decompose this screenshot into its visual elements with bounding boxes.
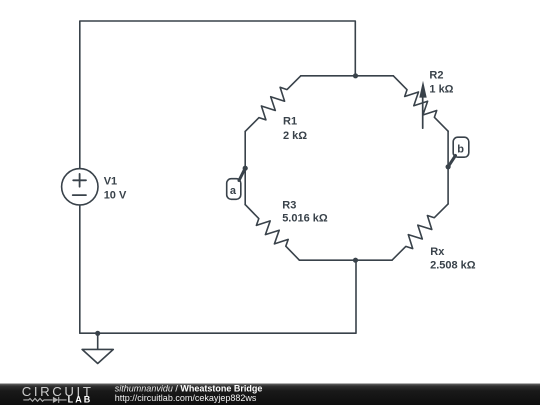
junction dot ground xyxy=(95,331,100,336)
wire: right vertical (node b) xyxy=(447,131,449,204)
svg-text:R1: R1 xyxy=(283,116,297,128)
svg-text:sithumnanvidu / Wheatstone Bri: sithumnanvidu / Wheatstone Bridge xyxy=(115,383,263,393)
voltage source V1 xyxy=(62,169,98,205)
R2 wiper arrow line xyxy=(422,96,424,128)
svg-text:10 V: 10 V xyxy=(104,190,127,202)
wire: bottom-right horizontal xyxy=(356,259,393,261)
resistor R2 (variable) xyxy=(393,76,448,131)
wire: bottom-left horizontal xyxy=(299,259,355,261)
junction dot node a xyxy=(243,166,248,171)
svg-text:2.508 kΩ: 2.508 kΩ xyxy=(430,259,476,271)
resistor R3 xyxy=(245,205,299,261)
svg-text:R2: R2 xyxy=(429,70,443,82)
svg-text:5.016 kΩ: 5.016 kΩ xyxy=(282,213,328,225)
svg-text:R3: R3 xyxy=(282,199,296,211)
svg-text:http://circuitlab.com/cekayjep: http://circuitlab.com/cekayjep882ws xyxy=(115,393,257,403)
svg-text:Rx: Rx xyxy=(430,246,445,258)
R2 arrowhead xyxy=(419,81,426,98)
svg-text:a: a xyxy=(230,185,237,197)
node b box xyxy=(453,137,469,157)
logo resistor symbol xyxy=(23,397,66,403)
svg-text:V1: V1 xyxy=(104,176,117,188)
junction dot bottom node xyxy=(353,258,358,263)
wire: top-right horizontal xyxy=(356,75,394,77)
svg-text:LAB: LAB xyxy=(68,395,93,405)
node a pointer xyxy=(239,168,245,180)
svg-text:b: b xyxy=(457,144,464,156)
svg-text:1 kΩ: 1 kΩ xyxy=(429,83,453,95)
wire: left vertical (node a) xyxy=(244,131,246,204)
resistor R1 xyxy=(245,76,301,132)
wire: V1 top to top node xyxy=(80,21,356,169)
node b pointer xyxy=(448,156,455,167)
junction dot node b xyxy=(446,164,451,169)
node a box xyxy=(227,179,241,200)
ground xyxy=(82,333,113,363)
wire: top-left horizontal xyxy=(301,75,356,77)
junction dot top node xyxy=(353,73,358,78)
svg-text:2 kΩ: 2 kΩ xyxy=(283,130,307,142)
wire: V1 bottom to bottom node xyxy=(80,205,356,333)
resistor Rx xyxy=(392,204,448,260)
